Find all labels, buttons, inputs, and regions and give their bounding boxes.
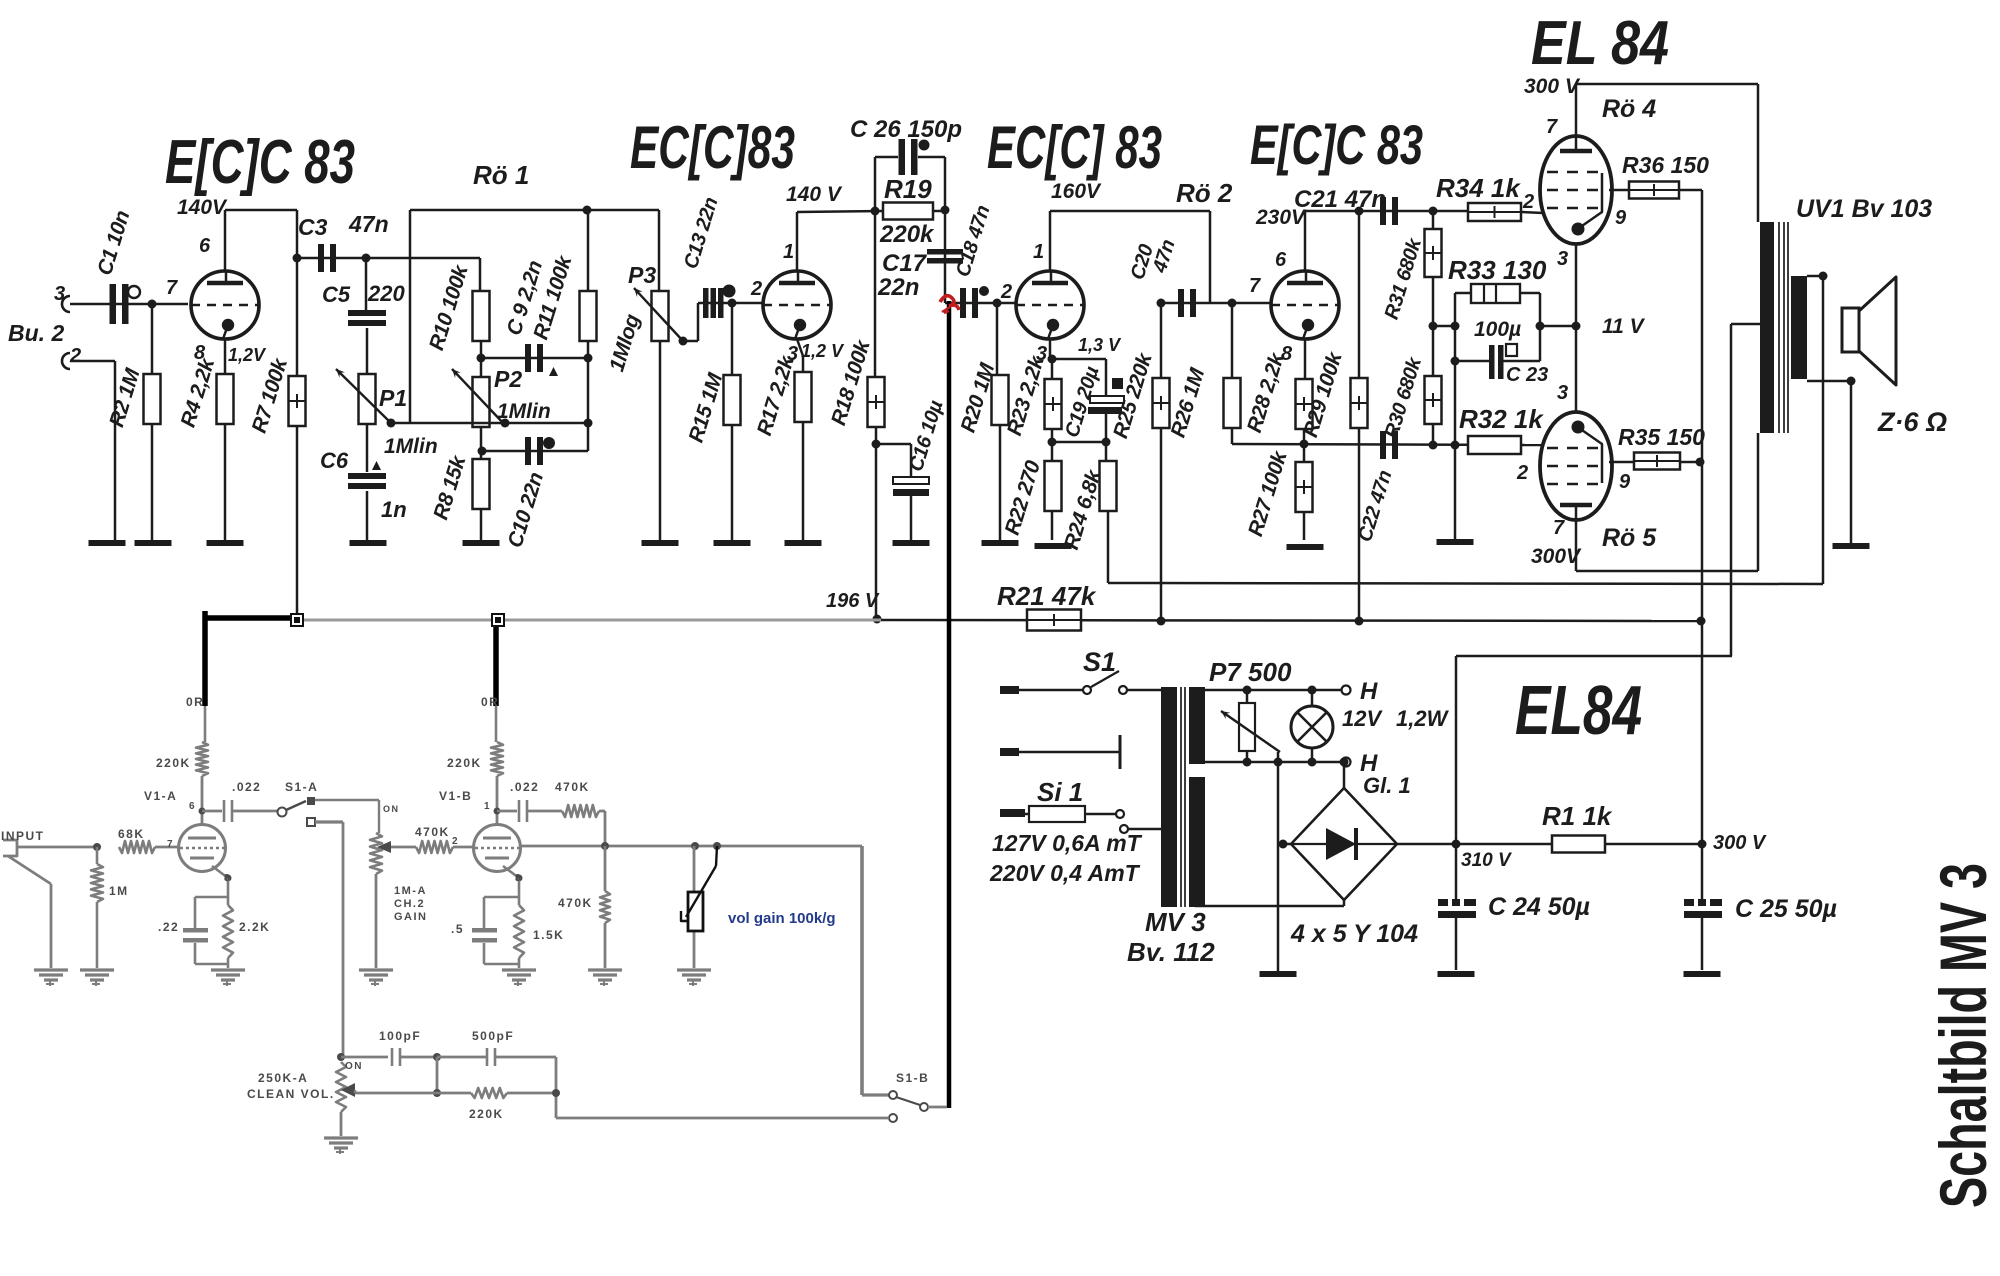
svg-text:1: 1 — [783, 241, 794, 263]
svg-text:3: 3 — [1557, 382, 1568, 404]
svg-text:V1-B: V1-B — [439, 789, 472, 803]
svg-text:R36 150: R36 150 — [1622, 152, 1709, 178]
svg-text:EC[C]83: EC[C]83 — [630, 114, 795, 181]
svg-text:GAIN: GAIN — [394, 911, 428, 923]
svg-text:C13 22n: C13 22n — [680, 195, 723, 272]
svg-text:R15 1M: R15 1M — [684, 370, 727, 445]
svg-text:R35 150: R35 150 — [1618, 424, 1705, 450]
svg-text:100pF: 100pF — [379, 1029, 421, 1043]
svg-text:Bv. 112: Bv. 112 — [1127, 937, 1215, 967]
svg-text:127V 0,6A mT: 127V 0,6A mT — [992, 830, 1143, 856]
svg-text:C 24 50µ: C 24 50µ — [1488, 893, 1590, 921]
svg-text:R34 1k: R34 1k — [1436, 173, 1521, 203]
svg-text:300 V: 300 V — [1713, 832, 1767, 854]
svg-text:P3: P3 — [628, 262, 656, 288]
svg-text:.022: .022 — [510, 780, 539, 794]
svg-text:E[C]C 83: E[C]C 83 — [1250, 113, 1423, 176]
svg-text:1Mlog: 1Mlog — [605, 311, 644, 374]
svg-text:3: 3 — [54, 283, 65, 305]
svg-text:1,3 V: 1,3 V — [1078, 335, 1122, 355]
svg-text:47n: 47n — [1149, 237, 1180, 276]
svg-text:C 23: C 23 — [1506, 364, 1548, 386]
svg-text:R4 2,2k: R4 2,2k — [177, 355, 220, 430]
svg-text:Rö 5: Rö 5 — [1602, 524, 1657, 552]
svg-text:R22 270: R22 270 — [1001, 458, 1045, 538]
svg-text:Bu. 2: Bu. 2 — [8, 320, 64, 346]
svg-text:C16 10µ: C16 10µ — [905, 397, 948, 474]
svg-text:C18 47n: C18 47n — [952, 203, 995, 280]
svg-text:0R: 0R — [481, 695, 499, 709]
svg-text:R26 1M: R26 1M — [1166, 365, 1209, 440]
svg-text:R1 1k: R1 1k — [1542, 801, 1613, 831]
svg-text:47n: 47n — [348, 211, 389, 237]
svg-text:C6: C6 — [320, 448, 349, 473]
svg-text:Z·6 Ω: Z·6 Ω — [1877, 407, 1947, 437]
svg-text:S1: S1 — [1083, 647, 1116, 677]
svg-text:140 V: 140 V — [786, 183, 843, 206]
svg-text:C17: C17 — [882, 250, 928, 277]
svg-text:9: 9 — [1615, 207, 1627, 229]
svg-text:.022: .022 — [232, 780, 261, 794]
svg-text:6: 6 — [199, 235, 211, 257]
svg-text:7: 7 — [166, 277, 178, 299]
svg-text:S1-B: S1-B — [896, 1071, 929, 1085]
svg-text:7: 7 — [1249, 275, 1261, 297]
svg-text:.5: .5 — [451, 922, 464, 936]
svg-text:C1 10n: C1 10n — [93, 208, 134, 278]
svg-text:2.2K: 2.2K — [239, 920, 270, 934]
svg-text:3: 3 — [1557, 248, 1568, 270]
svg-text:1,2V: 1,2V — [228, 345, 267, 365]
svg-text:R31 680k: R31 680k — [1381, 235, 1427, 322]
svg-text:MV 3: MV 3 — [1145, 907, 1206, 937]
svg-text:C 26 150p: C 26 150p — [850, 116, 962, 143]
svg-text:Si 1: Si 1 — [1037, 777, 1083, 807]
svg-text:220K: 220K — [447, 756, 482, 770]
svg-text:Rö 4: Rö 4 — [1602, 95, 1656, 123]
svg-text:EL84: EL84 — [1515, 671, 1642, 749]
svg-text:Gl. 1: Gl. 1 — [1363, 773, 1411, 798]
svg-text:R8 15k: R8 15k — [429, 452, 470, 522]
svg-text:300 V: 300 V — [1524, 75, 1581, 98]
svg-text:220K: 220K — [156, 756, 191, 770]
svg-text:ON: ON — [383, 804, 400, 814]
svg-text:CLEAN VOL.: CLEAN VOL. — [247, 1087, 335, 1101]
svg-text:196 V: 196 V — [826, 590, 880, 612]
svg-text:R28 2,2k: R28 2,2k — [1243, 349, 1289, 435]
svg-text:2: 2 — [750, 278, 762, 300]
svg-text:1n: 1n — [381, 497, 407, 522]
svg-text:2: 2 — [1516, 462, 1528, 484]
svg-text:160V: 160V — [1051, 180, 1102, 203]
svg-text:1,2 V: 1,2 V — [801, 341, 845, 361]
svg-text:310 V: 310 V — [1461, 850, 1512, 871]
svg-text:Rö 1: Rö 1 — [473, 160, 529, 190]
svg-text:R17 2,2k: R17 2,2k — [753, 352, 799, 438]
svg-text:R7 100k: R7 100k — [248, 355, 293, 436]
svg-text:.22: .22 — [158, 920, 179, 934]
svg-text:UV1 Bv 103: UV1 Bv 103 — [1796, 195, 1932, 223]
svg-text:R32 1k: R32 1k — [1459, 404, 1544, 434]
svg-text:250K-A: 250K-A — [258, 1071, 308, 1085]
svg-text:2: 2 — [1522, 191, 1534, 213]
svg-text:C22 47n: C22 47n — [1354, 468, 1397, 545]
svg-text:1Mlin: 1Mlin — [384, 435, 438, 458]
svg-text:140V: 140V — [177, 196, 228, 219]
svg-text:11 V: 11 V — [1602, 315, 1646, 338]
svg-text:P2: P2 — [494, 366, 522, 392]
svg-text:8: 8 — [224, 873, 231, 884]
svg-text:EC[C] 83: EC[C] 83 — [987, 114, 1162, 181]
svg-text:1M: 1M — [109, 884, 129, 898]
svg-text:470K: 470K — [555, 780, 590, 794]
svg-text:P7 500: P7 500 — [1209, 657, 1292, 687]
svg-text:220: 220 — [367, 281, 405, 306]
svg-text:2: 2 — [69, 345, 81, 367]
svg-text:470K: 470K — [415, 825, 450, 839]
svg-text:vol gain 100k/g: vol gain 100k/g — [728, 910, 836, 927]
svg-text:R19: R19 — [884, 174, 932, 204]
svg-text:R27 100k: R27 100k — [1244, 447, 1292, 539]
svg-text:CH.2: CH.2 — [394, 898, 425, 910]
svg-text:1M-A: 1M-A — [394, 885, 427, 897]
svg-text:R2 1M: R2 1M — [105, 365, 145, 429]
svg-text:220k: 220k — [879, 221, 935, 248]
svg-text:1.5K: 1.5K — [533, 928, 564, 942]
svg-text:1,2W: 1,2W — [1396, 706, 1450, 731]
svg-text:R30 680k: R30 680k — [1381, 354, 1427, 441]
svg-text:7: 7 — [1546, 116, 1558, 138]
svg-text:R21 47k: R21 47k — [997, 581, 1097, 611]
svg-text:V1-A: V1-A — [144, 789, 177, 803]
svg-text:1Mlin: 1Mlin — [497, 400, 551, 423]
svg-text:500pF: 500pF — [472, 1029, 514, 1043]
svg-text:S1-A: S1-A — [285, 780, 318, 794]
svg-text:ON: ON — [345, 1061, 363, 1072]
svg-text:300V: 300V — [1531, 545, 1582, 568]
svg-text:68K: 68K — [118, 827, 145, 841]
svg-text:C5: C5 — [322, 282, 351, 307]
svg-text:E[C]C 83: E[C]C 83 — [165, 128, 355, 197]
svg-text:H: H — [1360, 678, 1378, 705]
svg-text:EL 84: EL 84 — [1531, 9, 1669, 78]
svg-text:C10 22n: C10 22n — [504, 470, 549, 550]
svg-text:220K: 220K — [469, 1107, 504, 1121]
svg-text:C21 47n: C21 47n — [1294, 186, 1386, 213]
svg-text:6: 6 — [1275, 249, 1287, 271]
svg-text:7: 7 — [167, 839, 174, 850]
svg-text:R10 100k: R10 100k — [425, 261, 473, 353]
svg-text:INPUT: INPUT — [1, 829, 45, 843]
svg-text:9: 9 — [1619, 471, 1631, 493]
svg-text:0R: 0R — [186, 695, 204, 709]
svg-text:100µ: 100µ — [1474, 318, 1521, 341]
svg-text:P1: P1 — [379, 385, 407, 411]
svg-text:470K: 470K — [558, 896, 593, 910]
svg-text:2: 2 — [1000, 281, 1012, 303]
svg-text:Rö 2: Rö 2 — [1176, 178, 1233, 208]
svg-text:R33 130: R33 130 — [1448, 255, 1547, 285]
svg-text:4 x 5 Y 104: 4 x 5 Y 104 — [1290, 920, 1418, 948]
svg-text:3: 3 — [515, 873, 522, 884]
svg-text:2: 2 — [452, 836, 459, 847]
svg-text:1: 1 — [1033, 241, 1044, 263]
svg-text:7: 7 — [1553, 517, 1565, 539]
svg-text:C3: C3 — [298, 214, 328, 240]
svg-text:Schaltbild MV 3: Schaltbild MV 3 — [1926, 863, 2000, 1208]
svg-text:1: 1 — [484, 801, 491, 812]
svg-text:22n: 22n — [877, 274, 919, 301]
svg-text:6: 6 — [189, 801, 196, 812]
svg-text:220V 0,4 AmT: 220V 0,4 AmT — [989, 860, 1141, 886]
svg-text:R23 2,2k: R23 2,2k — [1003, 352, 1049, 438]
svg-text:C 25 50µ: C 25 50µ — [1735, 895, 1837, 923]
svg-text:12V: 12V — [1342, 706, 1383, 731]
